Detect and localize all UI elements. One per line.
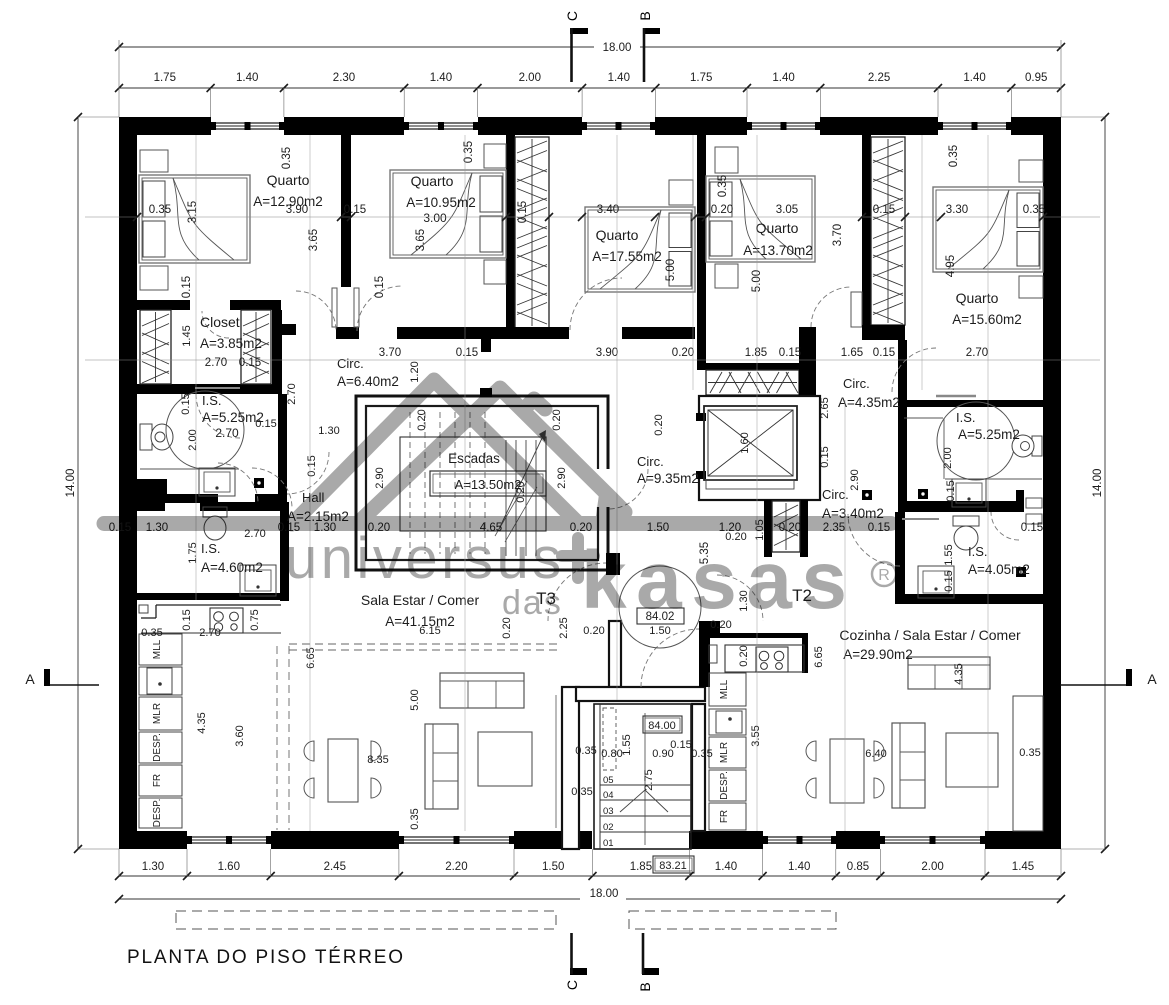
- IS1 right wall: [278, 394, 287, 503]
- svg-text:0.20: 0.20: [672, 347, 694, 359]
- svg-text:3.60: 3.60: [234, 725, 246, 746]
- bed quarto5: [933, 160, 1043, 298]
- stair treads dashed: [410, 412, 536, 556]
- svg-text:3.00: 3.00: [423, 211, 447, 225]
- svg-text:C: C: [564, 11, 580, 21]
- T2 square table: [946, 733, 998, 787]
- svg-text:0.75: 0.75: [249, 609, 261, 630]
- svg-text:0.35: 0.35: [141, 627, 162, 639]
- svg-text:0.15: 0.15: [945, 480, 957, 501]
- svg-text:I.S.: I.S.: [202, 393, 222, 408]
- svg-text:C: C: [564, 980, 580, 990]
- svg-text:B: B: [637, 11, 653, 20]
- svg-text:A=4.60m2: A=4.60m2: [201, 560, 263, 575]
- svg-text:14.00: 14.00: [1092, 469, 1104, 498]
- quarto4 door leaf: [851, 292, 862, 327]
- svg-text:3.70: 3.70: [379, 347, 401, 359]
- svg-text:6.40: 6.40: [865, 748, 886, 760]
- svg-text:1.40: 1.40: [963, 72, 985, 84]
- dimension right 14.00: [1061, 113, 1109, 853]
- thin reference lines: [196, 135, 988, 831]
- T3 kitchen counter top with stove: [139, 605, 281, 633]
- elevator car with X: [704, 406, 797, 489]
- svg-text:0.15: 0.15: [1021, 522, 1043, 534]
- misc dims: [141, 325, 1040, 829]
- IS405 floor drain: [1016, 567, 1026, 577]
- section marker C top: [564, 11, 588, 82]
- dimension bottom 18.00: [115, 886, 1065, 903]
- svg-text:0.15: 0.15: [255, 418, 276, 430]
- svg-text:0.15: 0.15: [344, 204, 366, 216]
- dimension left 14.00: [65, 113, 119, 853]
- svg-text:Quarto: Quarto: [756, 220, 799, 236]
- svg-text:1.30: 1.30: [318, 425, 339, 437]
- svg-text:A=17.55m2: A=17.55m2: [592, 249, 661, 264]
- svg-text:1.20: 1.20: [409, 361, 421, 382]
- svg-text:03: 03: [603, 806, 614, 817]
- svg-text:2.20: 2.20: [445, 861, 467, 873]
- svg-text:0.85: 0.85: [847, 861, 869, 873]
- svg-text:0.20: 0.20: [583, 625, 604, 637]
- svg-text:0.20: 0.20: [416, 409, 428, 430]
- section marker A left: [25, 669, 99, 687]
- svg-text:6.65: 6.65: [813, 646, 825, 667]
- svg-text:Closet: Closet: [200, 314, 240, 330]
- svg-text:0.35: 0.35: [281, 147, 293, 169]
- exterior top wall segments: [119, 117, 1061, 135]
- svg-text:3.70: 3.70: [832, 224, 844, 246]
- door leaves at wall W1: [332, 288, 359, 327]
- svg-text:2.00: 2.00: [921, 861, 943, 873]
- svg-text:1.40: 1.40: [608, 72, 630, 84]
- svg-text:A=10.95m2: A=10.95m2: [406, 195, 475, 210]
- IS405 walls: [895, 512, 1043, 604]
- svg-text:1.40: 1.40: [430, 72, 452, 84]
- right IS left wall: [898, 340, 907, 512]
- svg-text:18.00: 18.00: [590, 888, 619, 900]
- svg-text:Escadas: Escadas: [448, 451, 500, 466]
- svg-text:05: 05: [603, 775, 614, 786]
- svg-text:4.35: 4.35: [953, 663, 965, 684]
- T3 square table: [478, 732, 532, 786]
- level label 84.02: [637, 608, 684, 624]
- svg-text:0.15: 0.15: [517, 201, 529, 223]
- section marker B bottom: [637, 933, 659, 992]
- entry circle T3: [619, 566, 701, 648]
- wardrobe under quarto4: [706, 327, 816, 395]
- svg-text:1.75: 1.75: [690, 72, 712, 84]
- svg-text:1.60: 1.60: [218, 861, 240, 873]
- watermark t-cross glyph: [562, 538, 594, 578]
- svg-text:3.05: 3.05: [776, 204, 798, 216]
- svg-text:3.65: 3.65: [415, 229, 427, 251]
- svg-text:0.35: 0.35: [571, 786, 592, 798]
- svg-text:0.95: 0.95: [1025, 72, 1047, 84]
- svg-text:0.35: 0.35: [149, 204, 171, 216]
- svg-text:8.35: 8.35: [367, 754, 388, 766]
- corridor dim chain: [109, 519, 1043, 564]
- stair diagonal break: [495, 481, 527, 536]
- svg-text:0.15: 0.15: [181, 609, 193, 630]
- T3 living east wall: [562, 687, 579, 849]
- section marker C bottom: [564, 933, 587, 990]
- svg-text:1.75: 1.75: [154, 72, 176, 84]
- svg-text:kasas: kasas: [581, 535, 857, 626]
- svg-text:0.15: 0.15: [456, 347, 478, 359]
- svg-text:Quarto: Quarto: [267, 172, 310, 188]
- svg-text:Circ.: Circ.: [822, 487, 849, 502]
- svg-text:R: R: [878, 567, 890, 584]
- svg-text:0.15: 0.15: [239, 357, 261, 369]
- svg-text:14.00: 14.00: [65, 469, 77, 498]
- svg-text:I.S.: I.S.: [201, 541, 221, 556]
- wall left of wardrobe B: [862, 135, 871, 325]
- svg-text:A=5.25m2: A=5.25m2: [958, 427, 1020, 442]
- dimension top 18.00: [115, 38, 1065, 88]
- stair flight rect: [400, 437, 546, 531]
- svg-text:2.90: 2.90: [849, 469, 861, 490]
- svg-text:0.35: 0.35: [1023, 204, 1045, 216]
- svg-text:A: A: [25, 671, 35, 687]
- svg-text:5.00: 5.00: [409, 689, 421, 710]
- IS405 toilet: [953, 516, 979, 550]
- room labels: [200, 172, 1030, 662]
- circ floor drain: [862, 490, 872, 500]
- svg-text:2.00: 2.00: [942, 447, 954, 468]
- wall between quarto1 and quarto2: [341, 135, 351, 287]
- quarto5 door leaf: [936, 395, 976, 398]
- svg-text:MLL: MLL: [719, 679, 730, 699]
- watermark arrowhead: [596, 487, 632, 519]
- svg-text:DESP.: DESP.: [719, 771, 730, 800]
- svg-text:2.65: 2.65: [819, 397, 831, 418]
- elevator shaft walls: [696, 396, 820, 500]
- svg-text:3.40: 3.40: [597, 204, 619, 216]
- T2 stove: [725, 645, 804, 672]
- svg-text:1.50: 1.50: [542, 861, 564, 873]
- escadas area box: [430, 471, 546, 496]
- svg-text:2.90: 2.90: [374, 467, 386, 488]
- right IS toilet: [1012, 435, 1042, 457]
- svg-text:0.15: 0.15: [873, 204, 895, 216]
- svg-text:3.90: 3.90: [596, 347, 618, 359]
- svg-text:2.45: 2.45: [324, 861, 346, 873]
- svg-text:MLR: MLR: [719, 742, 730, 763]
- section marker B top: [637, 11, 660, 82]
- svg-text:0.35: 0.35: [1019, 747, 1040, 759]
- svg-text:5.00: 5.00: [665, 259, 677, 281]
- corridor top wall with door gaps: [336, 327, 695, 352]
- entry stairs box: [594, 704, 691, 849]
- roof overhang dashed: [176, 911, 836, 929]
- svg-text:02: 02: [603, 822, 614, 833]
- svg-text:4.95: 4.95: [945, 255, 957, 277]
- bed quarto2: [390, 144, 506, 284]
- wall between quarto3 and quarto4: [697, 135, 706, 370]
- level label 83.21: [653, 856, 694, 873]
- svg-text:FR: FR: [152, 774, 163, 787]
- T3 kitchen cabinet column: [139, 634, 182, 828]
- wardrobe A hatched: [515, 137, 549, 328]
- svg-text:A=4.35m2: A=4.35m2: [838, 395, 900, 410]
- svg-text:6.15: 6.15: [419, 625, 440, 637]
- svg-text:3.55: 3.55: [750, 725, 762, 746]
- svg-text:0.20: 0.20: [653, 414, 665, 435]
- IS2 right wall: [280, 502, 289, 601]
- svg-text:2.70: 2.70: [966, 347, 988, 359]
- svg-text:83.21: 83.21: [659, 860, 687, 872]
- svg-text:1.45: 1.45: [1012, 861, 1034, 873]
- svg-text:2.75: 2.75: [643, 769, 655, 790]
- svg-text:1.55: 1.55: [621, 734, 633, 755]
- T2 sofa horizontal: [908, 657, 990, 689]
- svg-text:2.25: 2.25: [868, 72, 890, 84]
- svg-text:1.65: 1.65: [841, 347, 863, 359]
- svg-text:0.80: 0.80: [601, 748, 622, 760]
- svg-text:0.15: 0.15: [819, 446, 831, 467]
- svg-text:Cozinha / Sala Estar / Comer: Cozinha / Sala Estar / Comer: [839, 627, 1021, 643]
- svg-text:0.15: 0.15: [181, 276, 193, 298]
- svg-text:A=4.05m2: A=4.05m2: [968, 562, 1030, 577]
- door leaf lines: [195, 388, 939, 519]
- svg-text:6.65: 6.65: [305, 647, 317, 668]
- svg-text:0.20: 0.20: [551, 409, 563, 430]
- svg-text:0.35: 0.35: [717, 175, 729, 197]
- interior dim chain middle: [85, 347, 1100, 369]
- svg-text:2.70: 2.70: [286, 383, 298, 404]
- svg-text:0.35: 0.35: [948, 145, 960, 167]
- svg-text:0.15: 0.15: [873, 347, 895, 359]
- svg-text:0.15: 0.15: [180, 393, 192, 414]
- closet right wall: [272, 310, 296, 394]
- IS2 toilet: [203, 507, 227, 540]
- bed quarto1: [139, 150, 250, 290]
- svg-text:A=9.35m2: A=9.35m2: [637, 471, 699, 486]
- svg-text:3.90: 3.90: [286, 204, 308, 216]
- right IS shower circle: [937, 402, 1015, 480]
- interior dim chain bedrooms: [85, 141, 1100, 298]
- svg-text:1.75: 1.75: [187, 542, 199, 563]
- svg-text:1.55: 1.55: [943, 544, 955, 565]
- T2 kitchen top wall: [709, 633, 808, 673]
- svg-text:1.85: 1.85: [745, 347, 767, 359]
- exterior left wall: [119, 117, 137, 849]
- bottom windows: [187, 836, 985, 844]
- svg-text:0.15: 0.15: [779, 347, 801, 359]
- top windows: [211, 122, 1011, 130]
- svg-text:0.15: 0.15: [943, 570, 955, 591]
- T3 dashed partition: [276, 646, 278, 830]
- svg-text:FR: FR: [719, 810, 730, 823]
- dashed wall-over marker in stairs: [603, 708, 616, 770]
- svg-text:4.35: 4.35: [196, 712, 208, 733]
- svg-text:1.45: 1.45: [181, 325, 193, 346]
- svg-text:Quarto: Quarto: [956, 290, 999, 306]
- T3 dining table with chairs: [304, 739, 381, 802]
- wall right of circ435: [799, 370, 816, 396]
- door arcs: [196, 278, 1019, 687]
- exterior right wall: [1043, 117, 1061, 849]
- bed quarto3: [585, 180, 695, 292]
- svg-text:3.30: 3.30: [946, 204, 968, 216]
- svg-text:0.35: 0.35: [691, 748, 712, 760]
- exterior bottom wall segments: [119, 831, 1061, 849]
- svg-text:A: A: [1147, 671, 1157, 687]
- svg-text:B: B: [637, 982, 653, 991]
- svg-text:A=29.90m2: A=29.90m2: [843, 647, 912, 662]
- svg-text:1.50: 1.50: [649, 625, 670, 637]
- svg-text:DESP.: DESP.: [152, 799, 163, 828]
- entry stair treads: [600, 775, 691, 849]
- svg-text:1.85: 1.85: [630, 861, 652, 873]
- dimension row top spans: [115, 72, 1065, 117]
- svg-text:0.20: 0.20: [711, 204, 733, 216]
- IS2 top wall: [137, 502, 280, 511]
- quarto5 bottom wall / IS top wall: [862, 325, 1043, 407]
- T3 sofa horizontal: [440, 673, 524, 708]
- svg-text:A=13.70m2: A=13.70m2: [743, 243, 812, 258]
- entry stair arrow: [644, 713, 646, 845]
- svg-text:0.90: 0.90: [652, 748, 673, 760]
- svg-text:04: 04: [603, 790, 614, 801]
- vestibule walls: [576, 553, 705, 701]
- T3 loveseat vertical: [425, 724, 458, 809]
- svg-text:universus: universus: [285, 526, 565, 591]
- svg-text:DESP.: DESP.: [152, 733, 163, 762]
- svg-text:0.20: 0.20: [738, 645, 750, 666]
- right IS bottom wall: [898, 490, 1024, 512]
- T2 kitchen door jamb: [709, 645, 717, 663]
- right IS floor drain: [918, 489, 928, 499]
- svg-text:2.70: 2.70: [199, 627, 220, 639]
- svg-text:A=13.50m2: A=13.50m2: [455, 477, 522, 492]
- wardrobe niche below elevator: [764, 500, 808, 557]
- svg-text:0.35: 0.35: [575, 745, 596, 757]
- svg-text:2.00: 2.00: [187, 429, 199, 450]
- T2 west wall: [692, 621, 720, 831]
- IS1 shower circle: [166, 391, 244, 469]
- svg-text:I.S.: I.S.: [956, 410, 976, 425]
- T2 kitchen cabinet column: [709, 673, 746, 830]
- svg-text:A=6.40m2: A=6.40m2: [337, 374, 399, 389]
- stairwell walls: [356, 388, 610, 570]
- right wall radiators: [1026, 498, 1042, 524]
- IS405 sink: [918, 566, 954, 598]
- IS1 toilet: [140, 424, 173, 450]
- dimension row bottom spans: [115, 849, 1065, 880]
- bed quarto4: [706, 147, 815, 288]
- closet bottom wall: [137, 384, 281, 394]
- svg-text:Quarto: Quarto: [411, 173, 454, 189]
- T2 sofa vertical: [892, 723, 925, 808]
- svg-text:2.30: 2.30: [333, 72, 355, 84]
- svg-text:84.00: 84.00: [648, 720, 676, 732]
- section marker A right: [1060, 669, 1157, 687]
- svg-text:1.60: 1.60: [739, 432, 751, 453]
- svg-text:1.40: 1.40: [772, 72, 794, 84]
- level label 84.00: [643, 716, 682, 733]
- T2 wall pilaster: [1013, 696, 1043, 831]
- IS2 sink: [240, 565, 276, 596]
- svg-text:2.70: 2.70: [205, 357, 227, 369]
- watermark horizontal bar: [104, 516, 891, 531]
- svg-text:Circ.: Circ.: [843, 376, 870, 391]
- svg-text:I.S.: I.S.: [968, 544, 988, 559]
- IS1 sink: [199, 468, 235, 496]
- svg-text:2.00: 2.00: [519, 72, 541, 84]
- svg-text:MLL: MLL: [152, 639, 163, 659]
- svg-text:2.90: 2.90: [556, 467, 568, 488]
- IS1 floor drain: [254, 478, 264, 488]
- IS2 bottom wall / kitchen top: [137, 593, 281, 600]
- svg-text:A=15.60m2: A=15.60m2: [952, 312, 1021, 327]
- svg-text:Circ.: Circ.: [337, 356, 364, 371]
- svg-text:PLANTA DO PISO TÉRREO: PLANTA DO PISO TÉRREO: [127, 947, 405, 968]
- svg-text:0.20: 0.20: [515, 481, 527, 502]
- svg-text:01: 01: [603, 838, 614, 849]
- svg-text:1.40: 1.40: [715, 861, 737, 873]
- quarto1 bottom wall: [137, 300, 281, 310]
- closet wardrobes hatched: [140, 310, 271, 384]
- svg-text:Sala Estar / Comer: Sala Estar / Comer: [361, 592, 480, 608]
- svg-text:1.30: 1.30: [142, 861, 164, 873]
- svg-text:1.40: 1.40: [788, 861, 810, 873]
- svg-text:1.40: 1.40: [236, 72, 258, 84]
- svg-text:2.70: 2.70: [215, 426, 239, 440]
- IS1 bottom wall: [137, 479, 287, 503]
- svg-text:0.35: 0.35: [409, 808, 421, 829]
- svg-text:MLR: MLR: [152, 703, 163, 724]
- svg-text:A=3.85m2: A=3.85m2: [200, 336, 262, 351]
- svg-text:18.00: 18.00: [603, 42, 632, 54]
- stair arrow: [499, 436, 543, 529]
- svg-text:0.15: 0.15: [306, 455, 318, 476]
- watermark registered mark: [872, 562, 896, 586]
- wardrobe B hatched: [871, 137, 905, 325]
- wall left of wardrobe A: [506, 135, 515, 330]
- svg-text:0.15: 0.15: [374, 276, 386, 298]
- svg-text:Circ.: Circ.: [637, 454, 664, 469]
- svg-text:3.15: 3.15: [187, 201, 199, 223]
- svg-text:das: das: [502, 584, 563, 622]
- right IS sink: [952, 479, 986, 507]
- T2 dining table with chairs: [806, 739, 884, 803]
- watermark logo roof chevrons: [292, 380, 625, 524]
